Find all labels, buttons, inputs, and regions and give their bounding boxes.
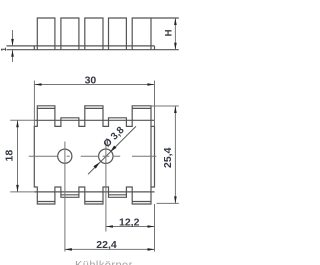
- right mounting hole: [99, 149, 113, 163]
- dim 25,4 line: [174, 106, 176, 203]
- side view base right corner: [154, 46, 156, 50]
- dim 25,4 top extension: [151, 105, 179, 107]
- dim 25,4 bottom extension: [157, 202, 179, 204]
- dim H bottom arrowhead: [174, 43, 177, 50]
- plan view outer outline: [34, 106, 154, 204]
- svg-text:1: 1: [0, 47, 8, 51]
- svg-text:12,2: 12,2: [119, 216, 140, 228]
- dim 1 arrow line above: [12, 30, 14, 46]
- dim 22,4 line: [65, 248, 155, 250]
- dim H line: [174, 18, 176, 50]
- side view fin 2: [61, 18, 79, 50]
- side view base plate top line: [7, 45, 155, 47]
- side view fin 5: [132, 18, 151, 50]
- dim 18 bottom arrowhead: [16, 185, 19, 192]
- diameter leader line: [88, 126, 136, 174]
- svg-text:Kühlkörper: Kühlkörper: [75, 260, 133, 265]
- dim 18 line: [17, 120, 19, 192]
- tab5 top inner line: [132, 107, 151, 109]
- dim 25,4 bottom arrowhead: [174, 196, 177, 203]
- side view fin 4: [109, 18, 127, 50]
- dim 30 line: [35, 84, 155, 86]
- dim 1 upper arrowhead: [11, 39, 14, 46]
- dim H top arrowhead: [174, 18, 177, 25]
- right extension for bottom dims: [154, 204, 156, 252]
- dim 25,4 top arrowhead: [174, 106, 177, 113]
- dim 30 left extension: [33, 81, 35, 127]
- plan view base plate top edge line: [34, 119, 154, 121]
- tab3 bottom inner line: [85, 201, 103, 203]
- dim 12,2 line: [106, 226, 155, 228]
- right hole vertical centerline: [105, 142, 107, 232]
- plan view fin5 right edge through line: [150, 126, 152, 187]
- svg-text:22,4: 22,4: [96, 239, 117, 251]
- dim 22,4 left arrowhead: [65, 248, 72, 251]
- svg-text:30: 30: [85, 75, 97, 87]
- tab2 bottom inner line: [61, 194, 79, 196]
- side view base plate bottom line: [7, 49, 179, 51]
- left hole vertical centerline: [64, 142, 66, 252]
- tab5 bottom inner line: [132, 201, 151, 203]
- diameter leader upper arrowhead: [110, 146, 116, 152]
- svg-text:25,4: 25,4: [162, 147, 174, 168]
- dim 30 left arrowhead: [35, 83, 42, 86]
- dim 18 bottom extension: [10, 191, 34, 193]
- svg-text:H: H: [164, 29, 175, 36]
- H dimension top extension line: [151, 17, 179, 19]
- dim 12,2 right arrowhead: [148, 225, 155, 228]
- holes horizontal centerline dash 6: [132, 155, 156, 157]
- holes horizontal centerline dash 4: [103, 155, 110, 157]
- dim 22,4 right arrowhead: [148, 248, 155, 251]
- dim 18 top arrowhead: [16, 120, 19, 127]
- holes horizontal centerline dash 1: [29, 155, 58, 157]
- holes horizontal centerline dash 2: [67, 155, 70, 157]
- side view fin 3: [85, 18, 103, 50]
- holes horizontal centerline dash 3: [81, 155, 100, 157]
- tab3 top inner line: [85, 107, 103, 109]
- tab1 top inner line: [37, 107, 55, 109]
- plan view base plate bottom edge line: [34, 191, 154, 193]
- tab4 bottom inner line: [109, 194, 127, 196]
- diameter leader lower arrowhead: [93, 162, 99, 168]
- holes horizontal centerline dash 5: [113, 155, 121, 157]
- dim 1 lower arrowhead: [11, 50, 14, 57]
- dim 30 right arrowhead: [147, 83, 154, 86]
- left mounting hole: [58, 149, 72, 163]
- dim 30 right extension and right side extension: [154, 81, 156, 127]
- svg-text:18: 18: [4, 150, 16, 162]
- side view fin 1: [37, 18, 55, 50]
- dim 18 top extension: [10, 119, 34, 121]
- dim 12,2 left arrowhead: [106, 225, 113, 228]
- side view base left corner: [33, 46, 35, 50]
- dim 1 arrow line below: [12, 50, 14, 62]
- tab1 bottom inner line: [37, 201, 55, 203]
